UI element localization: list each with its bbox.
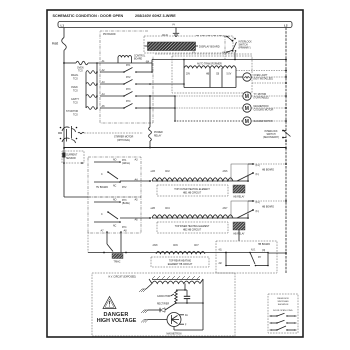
- relay row 1b: [94, 181, 120, 183]
- svg-text:NO: NO: [113, 200, 117, 202]
- main row wire to rail: [151, 60, 153, 64]
- svg-text:INTERLOCK: INTERLOCK: [264, 131, 278, 133]
- svg-text:PW BOARD: PW BOARD: [103, 33, 116, 36]
- svg-text:(N): (N): [262, 250, 265, 252]
- svg-text:HB RELAY: HB RELAY: [233, 196, 245, 199]
- relay module 1 lever: [237, 173, 253, 181]
- exit wire to heater2: [120, 217, 150, 219]
- heater element 3: [156, 252, 205, 254]
- bleed resistor R1: [175, 290, 178, 303]
- svg-text:HB2 HB CIRCUIT: HB2 HB CIRCUIT: [183, 229, 202, 231]
- svg-text:-CN7: -CN7: [222, 208, 228, 210]
- svg-text:(PRIMARY): (PRIMARY): [239, 47, 251, 50]
- svg-text:HB BOARD: HB BOARD: [258, 243, 270, 246]
- thermal cutout TCO4: [86, 95, 97, 98]
- magnetron V1: [167, 313, 181, 327]
- svg-text:RY2: RY2: [122, 187, 127, 189]
- node J2: [96, 62, 98, 64]
- svg-text:(F-): (F-): [256, 211, 260, 213]
- HV board box2: [88, 197, 141, 233]
- node J1: [63, 62, 65, 64]
- svg-text:CONTROL: CONTROL: [134, 56, 146, 58]
- transformer winding: [184, 66, 236, 68]
- svg-text:CN-D: CN-D: [162, 35, 168, 37]
- svg-text:RY1: RY1: [126, 65, 131, 67]
- wire transformer to rail: [236, 70, 286, 72]
- wire row N: [226, 265, 250, 267]
- transformer dashed box: [172, 56, 252, 93]
- heater element 1: [152, 178, 233, 181]
- svg-text:(F-): (F-): [256, 174, 260, 176]
- relay module 1 hatched pack: [233, 185, 245, 193]
- svg-text:(NOT INSTALLED): (NOT INSTALLED): [254, 78, 274, 81]
- svg-text:COOLING MOTOR: COOLING MOTOR: [254, 110, 274, 112]
- svg-text:HB1 HB CIRCUIT: HB1 HB CIRCUIT: [183, 192, 202, 194]
- svg-text:CN2: CN2: [165, 171, 170, 173]
- svg-text:-L1B: -L1B: [150, 171, 155, 173]
- svg-text:208/240V 60HZ 3-WIRE: 208/240V 60HZ 3-WIRE: [135, 14, 176, 18]
- ground G3: [141, 310, 148, 313]
- svg-text:OVEN: OVEN: [71, 87, 78, 89]
- thermal cutout TCO3: [86, 83, 97, 86]
- display board ribbon: [148, 42, 196, 51]
- svg-text:CB: CB: [216, 74, 220, 76]
- filament stubs: [179, 314, 184, 316]
- capacitor C1: [186, 290, 188, 296]
- triac hatched pack: [112, 254, 123, 259]
- svg-text:SWITCH: SWITCH: [239, 45, 248, 47]
- svg-text:NC: NC: [113, 186, 117, 188]
- nameplate heater1: [157, 185, 228, 196]
- triac Q1 lever: [107, 244, 113, 252]
- HV transformer T2 winding: [152, 281, 200, 283]
- svg-text:TOP OUTER HEATING ELEMENT: TOP OUTER HEATING ELEMENT: [174, 188, 210, 191]
- relay lever 1: [108, 172, 118, 179]
- motor M1 turntable: [243, 92, 251, 100]
- heater element 2: [152, 215, 233, 218]
- separator wire: [64, 147, 286, 149]
- legend switch row 3: [270, 329, 272, 331]
- relay row 2b: [94, 221, 120, 223]
- svg-text:HB: HB: [206, 74, 210, 76]
- relay lever 2: [108, 212, 118, 219]
- plug connector: [60, 127, 62, 129]
- svg-text:MAGNETRON: MAGNETRON: [167, 333, 182, 336]
- svg-text:DISPLAY BOARD: DISPLAY BOARD: [199, 45, 220, 49]
- svg-text:RY4: RY4: [126, 101, 131, 103]
- svg-text:CAVITY: CAVITY: [71, 98, 80, 101]
- svg-text:M: M: [245, 119, 249, 125]
- svg-text:-CN6: -CN6: [222, 171, 228, 173]
- oven light LP1: [243, 73, 251, 81]
- L2 rail right: [285, 28, 287, 149]
- svg-text:BOARD: BOARD: [134, 58, 143, 61]
- svg-text:TCO: TCO: [73, 90, 78, 92]
- svg-text:-L2B: -L2B: [150, 208, 155, 210]
- stub to L2 rail: [250, 252, 268, 254]
- svg-text:RY3: RY3: [126, 89, 131, 91]
- svg-text:L1: L1: [61, 24, 65, 28]
- svg-text:20V: 20V: [186, 74, 191, 76]
- module1 to bus: [253, 163, 286, 165]
- motor M2 cooling: [243, 104, 251, 112]
- svg-text:NO: NO: [113, 160, 117, 162]
- svg-text:(GRILL): (GRILL): [122, 163, 130, 165]
- svg-text:SENSOR: SENSOR: [66, 158, 76, 160]
- svg-text:H.V. CIRCUIT (EXPOSED): H.V. CIRCUIT (EXPOSED): [109, 277, 137, 279]
- nameplate heater3: [151, 257, 209, 267]
- diode D1: [148, 309, 160, 311]
- fuse F1: [62, 38, 67, 51]
- svg-text:(TURNTABLE): (TURNTABLE): [254, 97, 269, 100]
- warning triangle: [103, 297, 116, 309]
- svg-text:SWITCH: SWITCH: [266, 134, 275, 136]
- control relay coil K1: [118, 55, 132, 57]
- svg-text:TRIAC: TRIAC: [114, 261, 121, 264]
- nameplate heater2: [157, 222, 228, 233]
- HB board box bottom right: [216, 241, 277, 273]
- module2 to bus: [253, 200, 286, 202]
- relay row 1a: [94, 161, 120, 163]
- svg-text:RY3: RY3: [122, 200, 127, 202]
- relay contact RY4: [100, 107, 124, 109]
- svg-text:(SECONDARY): (SECONDARY): [263, 136, 279, 139]
- svg-text:M: M: [245, 106, 249, 112]
- relay contact RY1: [100, 71, 124, 73]
- svg-text:TCO: TCO: [78, 71, 83, 73]
- svg-text:HB BOARD: HB BOARD: [262, 169, 274, 172]
- display board connector dashed outline: [144, 36, 233, 53]
- svg-text:ELEMENT HB CIRCUIT: ELEMENT HB CIRCUIT: [168, 264, 193, 266]
- relay module 2 body: [231, 201, 248, 218]
- svg-text:POWER: POWER: [154, 132, 163, 134]
- svg-text:DOOR OPEN COND.: DOOR OPEN COND.: [273, 310, 293, 312]
- HV circuit dashed box: [92, 273, 235, 336]
- svg-text:TCO: TCO: [73, 114, 78, 116]
- relay module 2 hatched pack: [233, 222, 245, 230]
- interlock switch secondary: [282, 130, 284, 132]
- svg-text:STIRRER MOTOR: STIRRER MOTOR: [114, 137, 134, 139]
- filament wire left + ground G4: [148, 319, 167, 321]
- svg-text:-CN8: -CN8: [152, 245, 158, 247]
- svg-text:MAGN.: MAGN.: [71, 74, 79, 77]
- TCO ladder bus: [96, 63, 98, 108]
- svg-text:TCO: TCO: [73, 102, 78, 104]
- svg-text:HV BOARD: HV BOARD: [96, 186, 108, 189]
- svg-text:FA: FA: [185, 314, 188, 317]
- svg-text:(F+): (F+): [256, 165, 261, 167]
- primary lead + ground G1: [146, 284, 152, 290]
- svg-text:RY2: RY2: [126, 77, 131, 79]
- svg-text:(BAKE): (BAKE): [122, 202, 130, 205]
- svg-text:RECTIFIER: RECTIFIER: [157, 304, 169, 306]
- HV return wire: [202, 279, 204, 330]
- thermal cutout TCO2: [86, 71, 97, 74]
- svg-text:ST MOTOR: ST MOTOR: [66, 111, 78, 113]
- svg-text:INTERLOCK: INTERLOCK: [239, 42, 253, 44]
- svg-text:RY: RY: [258, 257, 262, 259]
- row1 wire to transformer node: [136, 71, 152, 73]
- border frame: [47, 10, 303, 337]
- thermal cutout TCO5: [86, 107, 97, 110]
- svg-text:HIGH VOLTAGE: HIGH VOLTAGE: [97, 318, 137, 324]
- PW board dashed box: [100, 31, 153, 123]
- svg-text:CN7: CN7: [194, 245, 199, 247]
- svg-text:N.O.: N.O.: [251, 250, 256, 252]
- svg-text:RELAY: RELAY: [154, 134, 162, 137]
- row2 wire to power relay: [136, 83, 184, 85]
- relay contact RY3: [100, 95, 124, 97]
- svg-text:TOP INNER HEATING ELEMENT: TOP INNER HEATING ELEMENT: [175, 225, 210, 228]
- svg-text:5.0V: 5.0V: [227, 74, 232, 76]
- wire L1 rail top: [63, 28, 65, 38]
- svg-text:FUSE: FUSE: [52, 44, 59, 46]
- power relay coil: [149, 107, 151, 109]
- power terminal strip: [58, 22, 292, 28]
- current sensor box: [62, 151, 84, 163]
- svg-text:CN9: CN9: [173, 245, 178, 247]
- top bus: [176, 289, 187, 291]
- interlock switch primary: [224, 36, 230, 38]
- tap frame: [183, 68, 185, 88]
- svg-text:RY1: RY1: [122, 160, 127, 162]
- svg-text:BLOWER MOTOR: BLOWER MOTOR: [254, 121, 273, 123]
- svg-text:OVEN: OVEN: [77, 68, 84, 70]
- relay contact inside HB board: [226, 252, 250, 254]
- svg-text:TCO: TCO: [73, 78, 78, 80]
- interlock primary stub down: [234, 52, 236, 60]
- legend switch row 1: [270, 315, 272, 317]
- stirrer dashed wire: [84, 132, 143, 134]
- bottom bus: [176, 302, 203, 304]
- left rail continues: [63, 63, 65, 148]
- motor feed bus: [174, 96, 176, 121]
- svg-text:RY4: RY4: [122, 227, 127, 229]
- wire row3: [88, 252, 156, 254]
- svg-text:(F+): (F+): [256, 202, 261, 204]
- secondary tap: [184, 284, 186, 291]
- svg-text:AUTO TRANSFORMER: AUTO TRANSFORMER: [197, 62, 222, 65]
- svg-text:CURRENT: CURRENT: [66, 155, 78, 157]
- svg-text:(G): (G): [172, 24, 175, 26]
- svg-text:L2: L2: [284, 24, 288, 28]
- svg-text:(OPTIONAL): (OPTIONAL): [117, 139, 130, 142]
- thermal cutout TCO1: [76, 61, 88, 65]
- svg-text:CN4: CN4: [165, 208, 170, 210]
- svg-text:SWITCHES: SWITCHES: [278, 301, 290, 303]
- legend switch row 2: [270, 322, 272, 324]
- svg-text:CAPACITOR: CAPACITOR: [157, 295, 171, 298]
- board lower dashed edge: [155, 53, 252, 55]
- svg-text:HB BOARD: HB BOARD: [262, 206, 274, 209]
- relay contact RY2: [100, 83, 124, 85]
- wire to TCO: [64, 62, 76, 64]
- relay module 2 lever: [237, 210, 253, 218]
- HV board box1: [88, 157, 141, 197]
- relay row 2a: [94, 201, 120, 203]
- svg-text:RELAY BOX: RELAY BOX: [277, 297, 289, 300]
- svg-text:M: M: [245, 94, 249, 100]
- exit wire to heater1: [120, 180, 150, 182]
- HV transformer T2 core hatch: [152, 276, 200, 279]
- legend box: [268, 294, 298, 333]
- svg-text:OVEN LIGHT: OVEN LIGHT: [254, 75, 269, 77]
- motor M3 blower: [243, 117, 251, 125]
- svg-text:TOP REAR HEATING: TOP REAR HEATING: [169, 260, 192, 263]
- relay module 1 body: [231, 164, 248, 181]
- svg-text:SHOWN IN: SHOWN IN: [278, 304, 289, 306]
- svg-text:NC: NC: [113, 226, 117, 228]
- module2 pack down wire: [238, 230, 240, 241]
- svg-text:SCHEMATIC CONDITION : DOOR OPE: SCHEMATIC CONDITION : DOOR OPEN: [53, 14, 124, 18]
